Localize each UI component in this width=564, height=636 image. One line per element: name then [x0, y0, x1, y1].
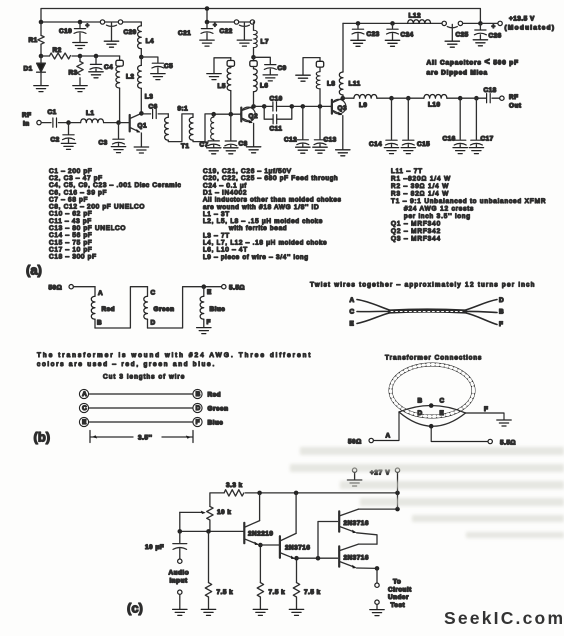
svg-text:3.3 k: 3.3 k	[226, 482, 243, 489]
svg-text:Green: Green	[154, 306, 175, 313]
svg-text:Red: Red	[208, 392, 222, 399]
svg-text:C10 – 62 pF: C10 – 62 pF	[49, 211, 92, 218]
svg-text:L2: L2	[126, 74, 134, 81]
svg-text:C18 – 300 pF: C18 – 300 pF	[49, 254, 97, 261]
parts list column 2	[203, 168, 342, 261]
svg-text:C13 – 80 pF UNELCO: C13 – 80 pF UNELCO	[49, 225, 126, 232]
note: transformer winding text	[37, 352, 311, 368]
svg-text:colors are used – red, green a: colors are used – red, green and blue.	[37, 361, 215, 368]
capacitor C22 (feed-through)	[220, 20, 255, 46]
svg-text:Q3: Q3	[338, 105, 348, 112]
winding C-D (Green)	[144, 287, 175, 328]
node: toroid tap D/E	[429, 424, 434, 429]
svg-text:(Modulated): (Modulated)	[505, 25, 555, 32]
svg-text:10 μF: 10 μF	[145, 544, 164, 551]
svg-text:L9: L9	[359, 102, 367, 109]
svg-text:C: C	[151, 289, 156, 296]
inductor L1	[69, 110, 119, 123]
svg-text:A: A	[386, 433, 391, 440]
svg-text:R3 – 82Ω 1/4 W: R3 – 82Ω 1/4 W	[391, 190, 449, 197]
svg-text:C2: C2	[51, 137, 60, 144]
node: +27V entry / rail	[395, 491, 400, 496]
svg-text:C19: C19	[59, 28, 72, 35]
svg-text:2N3716: 2N3716	[285, 545, 310, 552]
capacitor C11 (parallel loop)	[264, 106, 292, 132]
svg-text:(a): (a)	[26, 263, 42, 278]
svg-text:L6, L10 – 4T: L6, L10 – 4T	[203, 247, 248, 254]
node: C15 branch	[406, 96, 411, 101]
potentiometer 10k	[180, 506, 232, 531]
svg-text:C19, C21, C26 – 1μf/50V: C19, C21, C26 – 1μf/50V	[203, 168, 292, 175]
svg-text:T1 – 9:1 Unbalanced to unbalan: T1 – 9:1 Unbalanced to unbalanced XFMR	[391, 198, 546, 205]
svg-text:D: D	[196, 405, 201, 412]
node: L7/L6/C9 junction	[251, 55, 256, 60]
terminal: audio input jack upper	[178, 559, 182, 563]
node: 2N2219 emitter	[258, 543, 263, 548]
svg-text:A: A	[350, 297, 355, 304]
svg-text:R1: R1	[29, 37, 38, 44]
svg-text:C1: C1	[48, 109, 57, 116]
node: top rail tap stage 2	[205, 6, 210, 11]
svg-text:C23: C23	[367, 31, 380, 38]
node: C1/C2/L1 junction	[66, 120, 71, 125]
terminal: output jack upper	[375, 583, 379, 587]
node: C8 / L5 junction	[229, 112, 234, 117]
capacitor C9	[254, 57, 287, 81]
node: C17 branch	[474, 96, 479, 101]
capacitor C1	[41, 109, 68, 127]
capacitor C4	[89, 56, 113, 78]
terminal: RF In	[22, 112, 41, 128]
label: To Circuit Under Test	[388, 579, 412, 610]
svg-text:+: +	[492, 24, 496, 31]
svg-text:are Dipped Mica: are Dipped Mica	[427, 70, 488, 77]
svg-text:Test: Test	[391, 602, 406, 609]
svg-text:L9 – piece of wire – 3/4'' lon: L9 – piece of wire – 3/4'' long	[203, 254, 309, 261]
svg-text:C16: C16	[443, 135, 456, 142]
wire: stage-1 supply row	[41, 21, 141, 23]
svg-text:C24 – 0.1 μf: C24 – 0.1 μf	[203, 182, 247, 189]
node: C10/C11 right	[290, 104, 295, 109]
node: wiper / 10uF junction	[178, 529, 183, 534]
wire: upper collector to rail node	[359, 493, 398, 509]
wire: 2N2219 base row	[180, 530, 243, 532]
svg-text:+: +	[86, 23, 90, 30]
svg-text:B: B	[499, 309, 504, 316]
node: toroid tap B/C	[429, 403, 434, 408]
winding E-F (Blue)	[200, 287, 225, 327]
svg-text:C6, C16 – 39 pF: C6, C16 – 39 pF	[49, 189, 107, 196]
svg-text:C: C	[350, 309, 355, 316]
svg-text:#24 AWG 12 crests: #24 AWG 12 crests	[404, 205, 474, 212]
wire: B to C link	[95, 287, 148, 328]
resistor R3	[69, 56, 84, 85]
twisted wire labels A C E D B F	[350, 297, 505, 328]
svg-text:Q1: Q1	[138, 123, 148, 130]
node: driver emitter	[294, 556, 299, 561]
svg-text:C11 – 43 pF: C11 – 43 pF	[49, 218, 92, 225]
svg-text:In: In	[23, 121, 30, 128]
svg-text:C17: C17	[481, 135, 494, 142]
wire: Q2 base row	[214, 113, 241, 115]
node: Q2 collector / L6	[251, 104, 256, 109]
ground (Q3 emitter)	[336, 150, 350, 156]
svg-text:2N3716: 2N3716	[344, 520, 369, 527]
capacitor C6	[141, 104, 168, 119]
svg-text:L7: L7	[261, 39, 269, 46]
wire: toroid left vertex to 50 ohm	[373, 412, 399, 441]
ferrite bead on L5	[227, 58, 234, 67]
node: Q1 collector / L3 / C6	[139, 111, 144, 116]
ghost print-through smudges	[290, 447, 564, 538]
svg-text:C7: C7	[200, 142, 209, 149]
transistor 2N3716 upper	[339, 509, 377, 544]
svg-text:L8: L8	[327, 81, 335, 88]
wire length E-F (Blue)	[79, 417, 223, 426]
svg-text:C8, C12 – 200 pF UNELCO: C8, C12 – 200 pF UNELCO	[49, 204, 145, 211]
terminal: supply return with ground	[347, 468, 361, 486]
svg-text:T1: T1	[181, 143, 189, 150]
svg-text:B: B	[418, 398, 423, 405]
transistor 2N3716 driver	[280, 493, 310, 583]
inductor L12	[408, 13, 431, 24]
inductor L10	[392, 95, 461, 109]
svg-text:L3 – 7T: L3 – 7T	[203, 232, 230, 239]
capacitor C12	[284, 106, 310, 153]
node: R1/C19 row left	[39, 20, 44, 25]
transistor Q1	[130, 113, 147, 146]
svg-text:Input: Input	[170, 578, 188, 585]
svg-text:D1 – IN4002: D1 – IN4002	[203, 189, 247, 196]
svg-text:C20: C20	[124, 29, 137, 36]
capacitor C8	[224, 114, 248, 154]
resistor 7.5k #2	[257, 583, 285, 609]
svg-text:C11: C11	[270, 126, 283, 133]
capacitor C23	[351, 23, 380, 46]
node: C10/C11 left	[262, 104, 267, 109]
svg-text:5.5Ω: 5.5Ω	[229, 285, 245, 292]
svg-text:B: B	[97, 320, 102, 327]
node: C23 top	[356, 21, 361, 26]
label: Audio Input	[169, 570, 190, 585]
svg-text:C9: C9	[278, 65, 287, 72]
note: All Capacitors < 500 pF are Dipped Mica	[427, 57, 519, 77]
ground (toroid F)	[497, 420, 511, 426]
svg-text:50Ω: 50Ω	[348, 439, 362, 446]
wire: base lead Q1	[119, 122, 129, 124]
svg-text:(b): (b)	[34, 430, 51, 445]
svg-text:RF: RF	[509, 94, 519, 101]
svg-text:C26: C26	[489, 33, 502, 40]
ground (winding F)	[197, 328, 211, 334]
svg-text:9:1: 9:1	[178, 106, 189, 113]
capacitor C19	[59, 22, 90, 49]
svg-text:Transformer Connections: Transformer Connections	[385, 355, 482, 362]
capacitor C18	[476, 87, 499, 103]
node: L1/C3/L2/Q1-base junction	[116, 120, 121, 125]
resistor R2	[41, 47, 80, 59]
toroid core	[391, 365, 474, 417]
svg-text:L10: L10	[428, 102, 441, 109]
svg-text:with ferrite bead: with ferrite bead	[228, 225, 287, 232]
svg-text:L3: L3	[145, 94, 153, 101]
capacitor C13	[313, 106, 337, 153]
wire length A-B (Red)	[79, 389, 221, 398]
ferrite bead on L2	[116, 56, 123, 66]
svg-text:D: D	[499, 297, 504, 304]
svg-text:D1: D1	[24, 66, 33, 73]
node: +13.5V / C26 junction	[478, 21, 483, 26]
svg-text:D: D	[418, 410, 423, 417]
resistor 7.5k #1	[205, 531, 233, 608]
svg-text:R2 – 39Ω 1/4 W: R2 – 39Ω 1/4 W	[391, 183, 449, 190]
toroid labels B C D E F	[418, 398, 489, 418]
capacitor C26	[473, 23, 502, 45]
capacitor C17	[460, 98, 494, 153]
ferrite bead on L6	[250, 57, 257, 66]
node: output emitter	[375, 566, 380, 571]
wire: +27V rail (c)	[210, 493, 398, 507]
node: collector tie	[395, 507, 400, 512]
terminal: audio input jack lower	[178, 590, 182, 594]
capacitor C25 (feed-through)	[442, 21, 469, 47]
wire: output to test jack	[376, 568, 378, 583]
node: C21 top	[205, 20, 210, 25]
svg-text:A: A	[98, 290, 103, 297]
wire: emitter to driver base	[260, 544, 278, 546]
inductor L5	[218, 66, 231, 114]
svg-text:C12: C12	[284, 137, 297, 144]
svg-text:(c): (c)	[127, 601, 143, 616]
terminal: output jack lower	[375, 600, 379, 604]
capacitor 10uF	[145, 531, 187, 558]
svg-text:Q2: Q2	[249, 113, 259, 120]
node: Q3 collector / L11 / L9	[341, 96, 346, 101]
svg-text:C15: C15	[417, 141, 430, 148]
svg-text:5.5Ω: 5.5Ω	[500, 440, 516, 447]
svg-text:per inch 3.5'' long: per inch 3.5'' long	[404, 213, 471, 220]
svg-text:C20, C22, C25 – 680 pF Feed th: C20, C22, C25 – 680 pF Feed through	[203, 175, 338, 182]
svg-text:Q1 – MRF340: Q1 – MRF340	[391, 220, 441, 227]
wire: Q3 base row	[292, 105, 331, 107]
svg-text:Under: Under	[388, 594, 409, 601]
svg-text:R3: R3	[69, 70, 78, 77]
parts list column 3	[391, 168, 546, 243]
svg-text:C22: C22	[220, 28, 233, 35]
svg-text:C2, C3 – 47 pF: C2, C3 – 47 pF	[49, 175, 103, 182]
twisted wire bundle drawing	[357, 300, 497, 325]
ground (7.5k #3)	[289, 609, 303, 615]
svg-text:C4, C5, C9, C23 – .001 Disc Ce: C4, C5, C9, C23 – .001 Disc Ceramic	[49, 182, 181, 189]
capacitor C16	[443, 98, 468, 153]
svg-text:are wound with #18 AWG 1/8'' I: are wound with #18 AWG 1/8'' ID	[203, 204, 319, 211]
svg-text:7.5 k: 7.5 k	[269, 589, 286, 596]
svg-text:E: E	[207, 289, 212, 296]
terminal: 50 ohm input (b)	[49, 285, 74, 292]
ground (7.5k #1)	[201, 609, 215, 615]
svg-text:C: C	[440, 398, 445, 405]
resistor 7.5k #3	[293, 583, 320, 609]
svg-text:+13.5 V: +13.5 V	[509, 16, 535, 23]
svg-text:Circuit: Circuit	[388, 587, 412, 594]
svg-text:C6: C6	[149, 104, 158, 111]
wire: stage-3 supply row	[343, 22, 442, 24]
svg-text:L6: L6	[260, 83, 268, 90]
wire: stage-2 supply row	[207, 21, 254, 23]
terminal: +27 V	[370, 468, 400, 493]
svg-text:3.5'': 3.5''	[138, 435, 152, 442]
svg-text:B: B	[196, 391, 201, 398]
svg-text:Twist wires together – approxi: Twist wires together – approximately 12 …	[310, 282, 535, 289]
transformer T1 (9:1)	[165, 106, 214, 151]
wire length C-D (Green)	[79, 403, 228, 412]
wire: L5 grounded stub	[214, 58, 231, 73]
node: C13 / L8 junction	[318, 104, 323, 109]
wire: C25 to +13.5V node	[463, 22, 481, 24]
wire: jack to ground	[376, 604, 378, 609]
resistor R1	[29, 22, 45, 56]
inductor L11	[339, 23, 360, 98]
svg-text:C17 – 10 pF: C17 – 10 pF	[49, 246, 92, 253]
svg-text:Q2 – MRF342: Q2 – MRF342	[391, 228, 441, 235]
ground (output jack)	[370, 610, 384, 616]
node: C12 branch	[301, 104, 306, 109]
svg-text:L1: L1	[86, 110, 94, 117]
svg-text:To: To	[393, 579, 401, 586]
svg-text:Green: Green	[208, 406, 229, 413]
node: C14 branch	[389, 96, 394, 101]
wire: L8 grounded stub	[303, 58, 320, 75]
svg-text:L1 – 3T: L1 – 3T	[203, 211, 230, 218]
node: C4 top	[94, 54, 99, 59]
wire: stage-1 column corner into L4	[140, 22, 142, 26]
svg-text:R2: R2	[53, 47, 62, 54]
transistor 2N3716 lower	[339, 544, 377, 569]
svg-text:R1 –820Ω 1/4 W: R1 –820Ω 1/4 W	[391, 175, 451, 182]
node: C19 top	[78, 20, 83, 25]
svg-text:+: +	[213, 22, 217, 29]
svg-text:L2, L5, L8 – .15 μH molded cho: L2, L5, L8 – .15 μH molded choke	[203, 218, 323, 225]
node: C16 branch	[458, 96, 463, 101]
inductor L6	[254, 67, 269, 107]
ground (R3)	[73, 86, 87, 92]
wire: D to E link	[148, 287, 222, 328]
terminal: 5.5 ohm (toroid)	[488, 439, 516, 446]
svg-text:D: D	[151, 320, 156, 327]
svg-text:L11: L11	[349, 81, 361, 88]
node: R3 top	[78, 54, 83, 59]
svg-text:7.5 k: 7.5 k	[217, 589, 234, 596]
transistor Q2	[241, 106, 258, 146]
capacitor C5	[141, 57, 173, 80]
capacitor C3	[99, 123, 126, 153]
svg-text:The transformer is wound with: The transformer is wound with #24 AWG. T…	[37, 352, 311, 359]
capacitor C14	[369, 98, 399, 153]
svg-text:C18: C18	[484, 87, 497, 94]
svg-text:C24: C24	[401, 32, 414, 39]
capacitor C7 (with small choke drawn above)	[200, 114, 221, 154]
node: C24 top	[390, 21, 395, 26]
node: 2N3716 driver collector / rail	[294, 491, 299, 496]
svg-text:C4: C4	[104, 64, 113, 71]
terminal: 5.5 ohm (b)	[222, 285, 245, 292]
svg-text:Red: Red	[102, 306, 116, 313]
svg-text:Audio: Audio	[169, 570, 190, 577]
svg-text:SeekIC.com: SeekIC.com	[444, 608, 563, 628]
wire: toroid bottom tap to 5.5 ohm	[431, 426, 488, 441]
inductor L8	[316, 67, 335, 106]
svg-text:7.5 k: 7.5 k	[304, 589, 321, 596]
svg-text:F: F	[196, 419, 200, 426]
ground (7.5k #2)	[253, 609, 267, 615]
wire: +13.5V top rail	[41, 9, 480, 24]
wire: jack to ground	[179, 594, 181, 608]
inductor L9	[343, 95, 392, 109]
svg-text:RF: RF	[22, 112, 32, 119]
node: R1/R2/D1 junction	[39, 54, 44, 59]
capacitor C20 (feed-through)	[100, 20, 136, 47]
ground (L5 stub)	[207, 74, 221, 80]
node: output base tap	[316, 556, 321, 561]
terminal: RF Out	[500, 94, 522, 110]
transistor 2N2219	[244, 493, 273, 583]
svg-text:E: E	[440, 410, 445, 417]
svg-text:C7 – 68 pF: C7 – 68 pF	[49, 196, 88, 203]
wire: input to winding A	[73, 286, 95, 288]
node: 2N2219 collector / rail	[257, 491, 262, 496]
transistor Q3	[331, 98, 347, 149]
capacitor C15	[401, 98, 430, 153]
inductor L3	[138, 57, 154, 113]
svg-text:50Ω: 50Ω	[49, 285, 63, 292]
svg-text:L11 – 7T: L11 – 7T	[391, 168, 423, 175]
capacitor C2	[51, 123, 76, 150]
svg-text:C21: C21	[178, 30, 191, 37]
svg-text:L12: L12	[409, 13, 422, 20]
svg-text:Blue: Blue	[210, 306, 226, 313]
node: winding E top	[202, 284, 207, 289]
svg-text:C5: C5	[164, 63, 173, 70]
svg-text:F: F	[499, 321, 503, 328]
svg-text:All Capacitors < 500 pF: All Capacitors < 500 pF	[427, 57, 519, 67]
svg-text:Cut 3 lengths of wire: Cut 3 lengths of wire	[103, 374, 185, 381]
svg-text:L4: L4	[146, 38, 154, 45]
wire: Q2 collector to C10/C11	[254, 105, 265, 107]
svg-text:E: E	[82, 419, 87, 426]
node: L4/L3/C5 junction	[139, 55, 144, 60]
ferrite bead on L8	[316, 58, 323, 68]
svg-text:C: C	[82, 405, 87, 412]
svg-text:2N3716: 2N3716	[344, 555, 369, 562]
resistor 3.3k	[224, 482, 244, 496]
svg-text:10 k: 10 k	[217, 509, 231, 516]
wire: R2 to L2	[80, 55, 120, 57]
inductor L7	[254, 22, 269, 57]
svg-text:C13: C13	[324, 137, 337, 144]
svg-text:L4, L7, L12 – .18 μH molded ch: L4, L7, L12 – .18 μH molded choke	[203, 240, 327, 247]
svg-text:C3: C3	[99, 140, 108, 147]
ground (D1)	[34, 86, 48, 92]
parts list column 1	[49, 168, 181, 261]
inductor L4	[138, 26, 154, 57]
toroid winding lens	[399, 405, 466, 426]
capacitor C21	[178, 22, 217, 46]
ground (L8 stub)	[296, 75, 310, 81]
inductor L2	[116, 66, 135, 123]
ground (audio jack)	[173, 609, 187, 615]
svg-text:C14 – 56 pF: C14 – 56 pF	[49, 232, 92, 239]
dimension: 3.5 inch	[90, 431, 193, 443]
